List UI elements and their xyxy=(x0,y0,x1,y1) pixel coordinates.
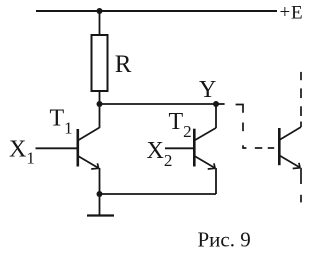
svg-text:T2: T2 xyxy=(169,109,192,141)
svg-text:R: R xyxy=(115,51,132,78)
node: collector bus junction xyxy=(97,101,103,107)
wire: resistor bottom lead xyxy=(99,91,101,104)
wire: emitter bus xyxy=(100,193,217,195)
ground xyxy=(87,214,114,216)
svg-text:Рис. 9: Рис. 9 xyxy=(198,228,251,252)
wire: stub right of Y node xyxy=(216,103,225,105)
wire: phantom collector dashed lead xyxy=(300,72,302,127)
svg-text:T1: T1 xyxy=(50,106,73,138)
wire: collector bus to Y xyxy=(100,103,217,105)
transistor T1 xyxy=(78,104,100,194)
svg-text:Y: Y xyxy=(199,77,216,103)
node Y junction dot xyxy=(213,101,219,107)
wire: ground lead xyxy=(99,194,101,216)
svg-text:X1: X1 xyxy=(9,137,35,168)
node: emitter bus junction xyxy=(97,191,103,197)
wire: X2 base lead xyxy=(165,147,194,149)
svg-text:E: E xyxy=(291,2,303,23)
wire: phantom emitter dashed lead xyxy=(300,168,302,203)
svg-text:+: + xyxy=(280,2,291,23)
wire: resistor top lead xyxy=(99,11,101,35)
wire: dashed link from Y (horizontal then down) xyxy=(236,105,275,149)
svg-text:X2: X2 xyxy=(147,138,173,170)
wire: +E supply rail xyxy=(36,10,277,12)
junction: rail to resistor xyxy=(97,8,103,14)
transistor (phantom, next stage) xyxy=(279,127,301,169)
resistor R xyxy=(92,35,108,91)
transistor T2 xyxy=(194,104,216,194)
wire: X1 base lead xyxy=(36,147,78,149)
